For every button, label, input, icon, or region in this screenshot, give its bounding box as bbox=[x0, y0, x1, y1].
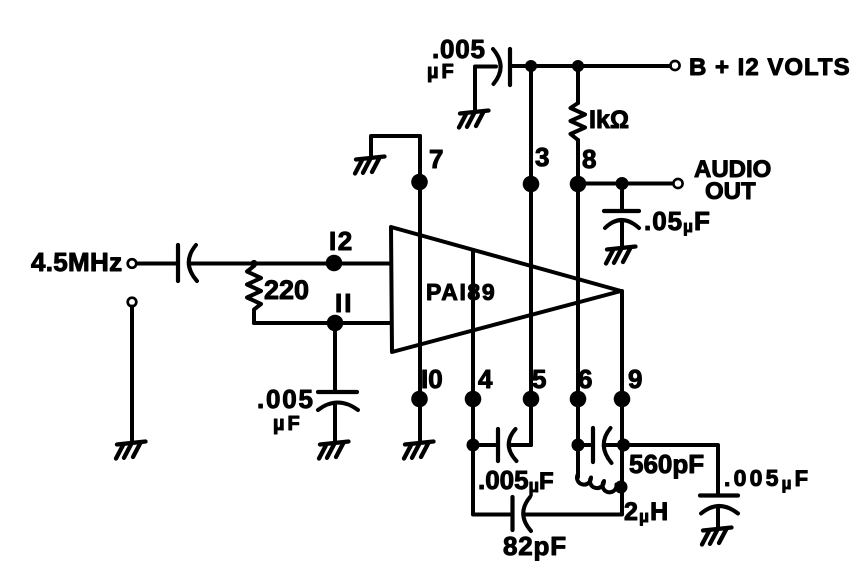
resistor R2 220 zigzag bbox=[247, 266, 261, 323]
node coil junction dot bbox=[615, 481, 628, 494]
wire 560pF node to right cap bbox=[623, 445, 718, 495]
node pin4 dot bbox=[465, 391, 482, 408]
wire C1 left elbow to ground bbox=[475, 67, 496, 111]
capacitor C8 .005uF flat plate bbox=[700, 493, 738, 497]
node pin11 dot bbox=[327, 315, 344, 332]
svg-text:220: 220 bbox=[264, 275, 309, 305]
node pin9 dot bbox=[614, 391, 631, 408]
capacitor C7 82pF curved plate bbox=[523, 497, 531, 531]
capacitor C5 .005uF straight plate bbox=[496, 429, 500, 461]
capacitor C4 .005uF curved plate bbox=[318, 403, 358, 411]
svg-text:8: 8 bbox=[582, 144, 596, 174]
wire C6 to pin9 line bbox=[604, 443, 624, 447]
svg-text:4: 4 bbox=[478, 364, 493, 394]
wire input to cap bbox=[137, 262, 176, 266]
svg-text:B + I2 VOLTS: B + I2 VOLTS bbox=[689, 54, 851, 81]
svg-text:I0: I0 bbox=[421, 364, 443, 394]
terminal B+ 12 volts bbox=[670, 61, 679, 70]
node junction dot at B+ and 1k bbox=[572, 60, 584, 72]
svg-text:7: 7 bbox=[429, 144, 443, 174]
wire pin3 vertical line bbox=[529, 66, 533, 445]
op-amp U1 PA189 triangle bbox=[391, 227, 621, 352]
wire pin8 vertical line bbox=[576, 140, 580, 477]
ground G1 top cap bbox=[459, 111, 489, 128]
svg-text:6: 6 bbox=[578, 364, 592, 394]
node pin10 dot bbox=[411, 391, 428, 408]
svg-text:4.5MHz: 4.5MHz bbox=[31, 247, 122, 277]
svg-text:.005µF: .005µF bbox=[478, 465, 554, 496]
capacitor C5 .005uF curved plate bbox=[509, 429, 517, 461]
node small junction at 220 bbox=[250, 260, 257, 267]
svg-text:µF: µF bbox=[427, 61, 457, 83]
ground G3 .05uF bbox=[606, 247, 636, 264]
inductor L1 2uH coil bbox=[577, 445, 621, 492]
node pin12 dot bbox=[326, 255, 343, 272]
capacitor C6 560pF straight plate bbox=[591, 428, 595, 462]
ground G6 pin10 bbox=[404, 442, 434, 459]
wire .05uF bottom stub bbox=[620, 222, 624, 246]
capacitor C2 .05uF curved plate bbox=[605, 220, 639, 228]
capacitor C1 .005uF top (curved plate) bbox=[493, 49, 501, 84]
ground G5 under C4 bbox=[319, 442, 349, 459]
capacitor C7 82pF straight plate bbox=[510, 497, 514, 530]
capacitor C6 560pF curved plate bbox=[604, 428, 612, 463]
svg-text:IkΩ: IkΩ bbox=[589, 106, 629, 134]
node audio junction dot bbox=[616, 177, 629, 190]
capacitor C3 input curved plate bbox=[189, 245, 197, 281]
wire pin6 cap left stub bbox=[578, 443, 590, 447]
wire cap to pin12 bbox=[190, 262, 391, 266]
wire output pin9 vertical bbox=[620, 291, 624, 515]
svg-text:82pF: 82pF bbox=[503, 531, 567, 561]
svg-text:PAI89: PAI89 bbox=[426, 279, 496, 305]
wire .05uF top stub bbox=[620, 184, 624, 211]
svg-text:.005µF: .005µF bbox=[724, 465, 811, 493]
svg-text:II: II bbox=[335, 288, 353, 318]
svg-text:2µH: 2µH bbox=[624, 498, 669, 526]
ground G7 under C8 bbox=[702, 528, 732, 545]
node pin5 dot bbox=[523, 391, 540, 408]
terminal AUDIO OUT bbox=[673, 179, 682, 188]
wire pin7 elbow to ground bbox=[371, 136, 420, 156]
node junction 560pF right dot bbox=[617, 439, 630, 452]
terminal input lower bbox=[128, 298, 137, 307]
node junction pin6 branch dot bbox=[572, 439, 585, 452]
ground G2 pin7 bbox=[355, 157, 385, 174]
wire pin4 vertical bbox=[471, 250, 475, 514]
svg-text:.005: .005 bbox=[432, 34, 486, 64]
wire C5 to pin5 line bbox=[509, 443, 531, 447]
node pin7 dot bbox=[411, 174, 428, 191]
svg-text:µF: µF bbox=[273, 413, 303, 435]
resistor R1 1k ohm zigzag bbox=[571, 103, 586, 140]
wire C8 bottom stub bbox=[716, 507, 720, 527]
svg-text:560pF: 560pF bbox=[629, 449, 704, 479]
svg-text:5: 5 bbox=[532, 364, 546, 394]
wire input lower to ground bbox=[130, 307, 134, 442]
svg-text:.05µF: .05µF bbox=[644, 206, 711, 236]
wire pin11 cap stub bbox=[333, 323, 337, 391]
node pin6 dot bbox=[570, 391, 587, 408]
wire pin7 vertical line bbox=[418, 136, 422, 441]
wire B+ rail horizontal bbox=[512, 64, 670, 68]
capacitor C2 .05uF flat plate bbox=[604, 209, 639, 213]
node pin8 dot bbox=[570, 176, 587, 193]
wire pin4 cap left stub bbox=[473, 443, 495, 447]
capacitor C1 .005uF top (straight plate) bbox=[508, 49, 512, 85]
svg-text:OUT: OUT bbox=[705, 178, 756, 205]
wire audio out horizontal bbox=[578, 182, 672, 186]
wire pin11 horizontal bbox=[254, 321, 391, 325]
node junction dot at B+ and pin3 bbox=[525, 60, 537, 72]
capacitor C8 .005uF curved plate bbox=[701, 506, 738, 514]
wire C4 bottom stub bbox=[333, 405, 337, 441]
wire pin10 to ground bbox=[418, 399, 422, 441]
capacitor C4 .005uF flat plate bbox=[318, 390, 357, 394]
svg-text:3: 3 bbox=[535, 142, 549, 172]
capacitor C3 input straight plate bbox=[176, 245, 180, 281]
svg-text:9: 9 bbox=[628, 364, 642, 394]
terminal input top bbox=[128, 259, 137, 268]
node pin3 dot bbox=[523, 176, 540, 193]
svg-text:I2: I2 bbox=[329, 226, 354, 256]
wire 82pF right to output riser bbox=[524, 513, 621, 517]
wire 82pF left riser and stub bbox=[473, 445, 510, 515]
node junction pin4 branch dot bbox=[467, 439, 480, 452]
ground G4 input bbox=[116, 442, 146, 459]
svg-text:.005: .005 bbox=[257, 384, 315, 414]
wire 1k upper stub bbox=[576, 66, 580, 103]
